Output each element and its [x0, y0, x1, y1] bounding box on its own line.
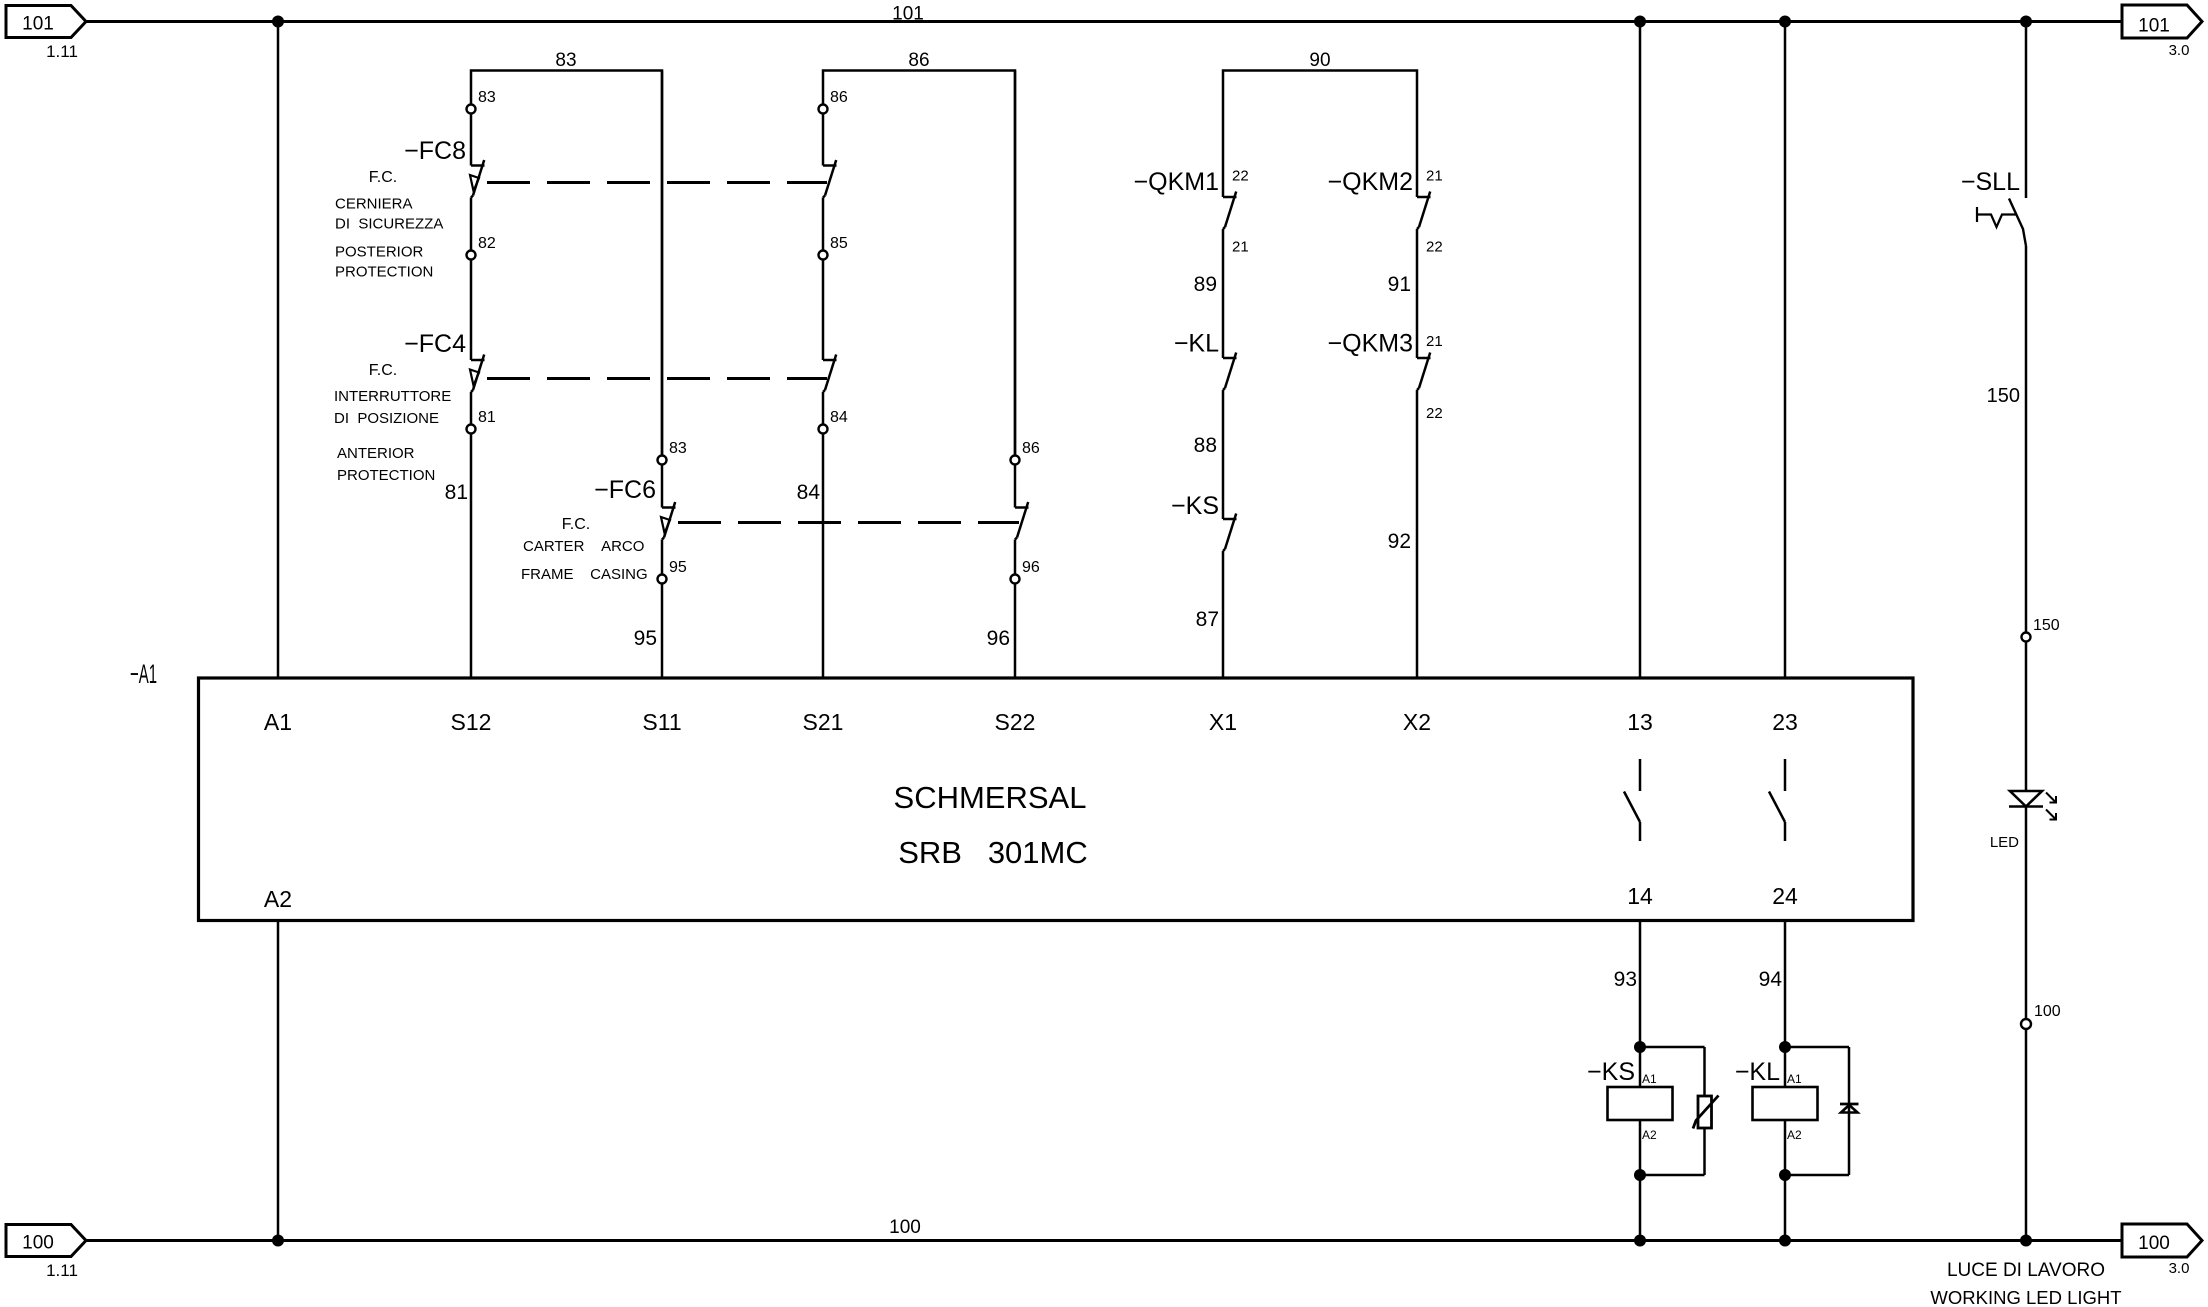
- svg-text:A1: A1: [1787, 1072, 1802, 1086]
- svg-text:3.0: 3.0: [2169, 1260, 2190, 1277]
- svg-text:−FC6: −FC6: [594, 476, 656, 504]
- svg-text:3.0: 3.0: [2169, 42, 2190, 59]
- svg-text:24: 24: [1772, 883, 1798, 909]
- svg-text:A2: A2: [264, 886, 292, 912]
- svg-text:22: 22: [1426, 239, 1443, 256]
- svg-text:−A1: −A1: [130, 659, 157, 689]
- svg-text:A1: A1: [264, 709, 292, 735]
- svg-text:101: 101: [2138, 16, 2170, 37]
- svg-text:91: 91: [1388, 273, 1411, 296]
- svg-text:A1: A1: [1642, 1072, 1657, 1086]
- svg-text:S12: S12: [451, 709, 492, 735]
- svg-text:89: 89: [1194, 273, 1217, 296]
- svg-text:LED: LED: [1990, 834, 2019, 851]
- svg-text:22: 22: [1426, 405, 1443, 422]
- svg-text:DI SICUREZZA: DI SICUREZZA: [335, 216, 443, 233]
- svg-text:100: 100: [22, 1233, 54, 1254]
- svg-text:WORKING LED LIGHT: WORKING LED LIGHT: [1930, 1287, 2121, 1307]
- svg-text:100: 100: [2138, 1233, 2170, 1254]
- svg-text:100: 100: [889, 1217, 921, 1238]
- svg-text:150: 150: [1987, 385, 2020, 407]
- svg-text:CARTER ARCO: CARTER ARCO: [523, 538, 644, 555]
- svg-text:1.11: 1.11: [46, 1261, 78, 1280]
- svg-text:−FC8: −FC8: [404, 137, 466, 165]
- svg-text:84: 84: [797, 481, 821, 504]
- svg-text:SRB 301MC: SRB 301MC: [898, 835, 1088, 870]
- svg-text:83: 83: [555, 50, 576, 71]
- svg-text:−QKM2: −QKM2: [1328, 168, 1413, 196]
- svg-text:92: 92: [1388, 530, 1411, 553]
- svg-text:101: 101: [892, 4, 924, 25]
- svg-text:−KL: −KL: [1174, 330, 1219, 358]
- svg-text:INTERRUTTORE: INTERRUTTORE: [334, 388, 451, 405]
- svg-text:87: 87: [1196, 608, 1219, 631]
- svg-text:A2: A2: [1787, 1128, 1802, 1142]
- svg-text:S11: S11: [642, 709, 681, 735]
- svg-text:85: 85: [830, 235, 848, 252]
- svg-text:ANTERIOR: ANTERIOR: [337, 445, 415, 462]
- svg-text:83: 83: [669, 440, 687, 457]
- svg-text:86: 86: [830, 89, 848, 106]
- svg-text:21: 21: [1426, 168, 1443, 185]
- svg-text:101: 101: [22, 14, 54, 35]
- svg-text:FRAME CASING: FRAME CASING: [521, 566, 648, 583]
- svg-text:23: 23: [1772, 709, 1798, 735]
- svg-text:SCHMERSAL: SCHMERSAL: [894, 780, 1087, 815]
- svg-text:95: 95: [634, 627, 657, 650]
- svg-text:94: 94: [1759, 968, 1783, 991]
- svg-text:POSTERIOR: POSTERIOR: [335, 244, 424, 261]
- svg-text:81: 81: [445, 481, 468, 504]
- svg-text:F.C.: F.C.: [369, 169, 397, 186]
- svg-text:X2: X2: [1403, 709, 1431, 735]
- svg-text:96: 96: [987, 627, 1010, 650]
- svg-text:21: 21: [1426, 333, 1443, 350]
- svg-text:100: 100: [2034, 1003, 2061, 1020]
- svg-text:82: 82: [478, 235, 496, 252]
- svg-text:21: 21: [1232, 239, 1249, 256]
- svg-text:86: 86: [1022, 440, 1040, 457]
- svg-text:−KS: −KS: [1171, 492, 1219, 520]
- svg-text:14: 14: [1627, 883, 1653, 909]
- svg-text:CERNIERA: CERNIERA: [335, 196, 413, 213]
- svg-text:−QKM1: −QKM1: [1134, 168, 1219, 196]
- svg-text:84: 84: [830, 409, 848, 426]
- svg-text:1.11: 1.11: [46, 42, 78, 61]
- svg-text:83: 83: [478, 89, 496, 106]
- svg-text:PROTECTION: PROTECTION: [335, 264, 433, 281]
- svg-text:−QKM3: −QKM3: [1328, 330, 1413, 358]
- svg-text:A2: A2: [1642, 1128, 1657, 1142]
- svg-text:86: 86: [908, 50, 929, 71]
- svg-text:F.C.: F.C.: [562, 516, 590, 533]
- svg-text:88: 88: [1194, 434, 1217, 457]
- svg-text:S21: S21: [803, 709, 844, 735]
- svg-text:95: 95: [669, 559, 687, 576]
- svg-text:−KS: −KS: [1587, 1058, 1635, 1086]
- svg-text:93: 93: [1614, 968, 1637, 991]
- svg-text:22: 22: [1232, 168, 1249, 185]
- svg-text:81: 81: [478, 409, 496, 426]
- svg-text:−FC4: −FC4: [404, 330, 466, 358]
- svg-text:PROTECTION: PROTECTION: [337, 467, 435, 484]
- svg-text:−KL: −KL: [1735, 1058, 1780, 1086]
- svg-text:S22: S22: [995, 709, 1036, 735]
- svg-text:LUCE DI LAVORO: LUCE DI LAVORO: [1947, 1260, 2105, 1281]
- svg-text:96: 96: [1022, 559, 1040, 576]
- svg-text:−SLL: −SLL: [1961, 168, 2020, 196]
- svg-text:13: 13: [1627, 709, 1653, 735]
- svg-text:150: 150: [2033, 617, 2060, 634]
- svg-text:DI POSIZIONE: DI POSIZIONE: [334, 410, 439, 427]
- svg-text:90: 90: [1309, 50, 1330, 71]
- svg-text:X1: X1: [1209, 709, 1237, 735]
- svg-text:F.C.: F.C.: [369, 362, 397, 379]
